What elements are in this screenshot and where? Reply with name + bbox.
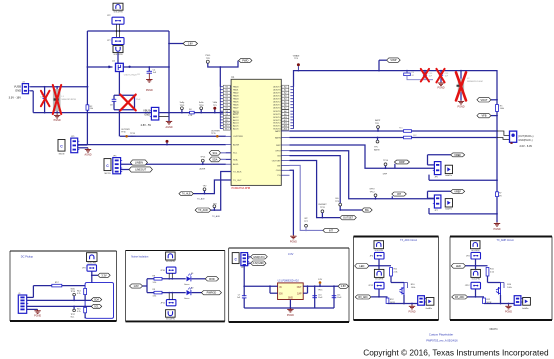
svg-text:1.8V: 1.8V [318, 279, 323, 281]
svg-text:3.3k: 3.3k [153, 282, 157, 284]
svg-text:3.3V - 16V: 3.3V - 16V [9, 96, 22, 100]
svg-text:PGND: PGND [287, 314, 294, 317]
svg-text:A7: A7 [284, 107, 286, 110]
svg-text:DRP: DRP [276, 145, 281, 147]
svg-text:GoldPin: GoldPin [426, 308, 433, 310]
svg-text:PAD2: PAD2 [233, 92, 239, 95]
svg-text:OUTSET: OUTSET [343, 217, 354, 220]
svg-text:AGND: AGND [166, 126, 173, 129]
svg-text:BOUT6: BOUT6 [273, 111, 281, 113]
svg-text:PGND: PGND [146, 89, 153, 92]
svg-text:Noise Isolation: Noise Isolation [131, 254, 149, 258]
svg-text:TP13: TP13 [130, 133, 136, 135]
svg-text:AOUT7: AOUT7 [273, 86, 281, 89]
svg-text:GPIO: GPIO [275, 151, 281, 153]
svg-text:1.8V: 1.8V [188, 42, 193, 45]
svg-text:(OUT(PACK+): (OUT(PACK+) [518, 135, 533, 138]
svg-text:TX_ALE: TX_ALE [197, 198, 205, 201]
svg-text:AOUT5: AOUT5 [273, 92, 281, 95]
svg-text:JP7: JP7 [434, 210, 437, 212]
svg-text:BOUT1: BOUT1 [273, 126, 281, 128]
svg-text:VMAIN: VMAIN [293, 54, 300, 57]
svg-text:D2: D2 [191, 288, 193, 290]
svg-text:BOUT3: BOUT3 [273, 120, 281, 122]
svg-text:PCM1870A RHB: PCM1870A RHB [232, 187, 251, 190]
svg-text:BATP: BATP [375, 119, 381, 122]
svg-text:SRN6028-100M: SRN6028-100M [467, 81, 483, 83]
svg-text:GOLDPIN: GOLDPIN [375, 279, 384, 281]
svg-text:U2 LP38693SD-ADJ: U2 LP38693SD-ADJ [278, 280, 299, 283]
svg-text:VREF: VREF [454, 190, 461, 193]
svg-text:SCL: SCL [212, 152, 217, 155]
svg-text:Green: Green [184, 284, 189, 286]
svg-text:TP10: TP10 [383, 160, 389, 162]
svg-text:1.8V: 1.8V [133, 285, 138, 288]
svg-text:TP1: TP1 [213, 105, 217, 107]
svg-text:2.0V - 6.0V: 2.0V - 6.0V [520, 145, 533, 148]
svg-text:PGND: PGND [34, 315, 41, 318]
svg-text:TX_AMP Circuit: TX_AMP Circuit [497, 239, 514, 242]
svg-text:GOLDPIN: GOLDPIN [375, 250, 384, 252]
svg-text:TP11: TP11 [320, 207, 326, 209]
svg-text:SDA: SDA [212, 158, 217, 161]
svg-text:PAD6: PAD6 [233, 104, 239, 107]
svg-text:OUTSET: OUTSET [272, 160, 281, 162]
svg-text:ALD3: ALD3 [233, 119, 239, 122]
svg-text:BG: BG [277, 156, 280, 158]
svg-text:AOUT2: AOUT2 [273, 101, 281, 104]
svg-text:PG: PG [277, 175, 280, 177]
svg-text:MICIN: MICIN [59, 154, 65, 156]
svg-text:DC Pickup: DC Pickup [21, 254, 34, 258]
svg-text:0.1R: 0.1R [188, 115, 193, 117]
svg-text:GND(PACK-): GND(PACK-) [518, 139, 532, 142]
svg-text:GoldPin: GoldPin [445, 175, 452, 177]
svg-text:TP14: TP14 [200, 157, 206, 159]
svg-text:VINP: VINP [390, 58, 396, 62]
svg-text:PGND: PGND [458, 106, 465, 109]
svg-text:BG: BG [336, 198, 339, 200]
svg-text:2.8V - 5V: 2.8V - 5V [141, 124, 152, 127]
svg-text:R9: R9 [153, 289, 155, 291]
svg-text:GND: GND [288, 297, 293, 299]
svg-text:TP12: TP12 [370, 192, 376, 194]
svg-text:Green: Green [184, 298, 189, 300]
svg-text:FB1: FB1 [399, 128, 403, 130]
svg-text:Copyright © 2016, Texas Instru: Copyright © 2016, Texas Instruments Inco… [363, 347, 549, 357]
svg-text:GND(3.3V): GND(3.3V) [253, 257, 265, 259]
svg-text:GOLDPIN: GOLDPIN [471, 250, 480, 252]
svg-text:PAD0: PAD0 [233, 86, 239, 89]
svg-text:Custom Placeholder: Custom Placeholder [429, 332, 453, 336]
svg-text:TX_AUD: TX_AUD [198, 209, 208, 212]
svg-text:GOLDPIN: GOLDPIN [114, 11, 123, 13]
svg-text:PAD7: PAD7 [233, 107, 239, 110]
svg-text:TX_ALE: TX_ALE [182, 193, 191, 196]
svg-text:PWRGD: PWRGD [207, 292, 217, 295]
svg-text:LED: LED [359, 265, 364, 268]
svg-text:100k: 100k [500, 108, 504, 110]
svg-text:GND: GND [144, 113, 150, 116]
svg-text:ALD6: ALD6 [233, 128, 239, 131]
svg-text:PAD5: PAD5 [233, 101, 239, 104]
svg-text:N7: N7 [225, 108, 227, 110]
svg-text:ALD2: ALD2 [233, 116, 239, 119]
svg-text:SDA: SDA [233, 158, 238, 161]
svg-text:LINEIN: LINEIN [135, 161, 143, 164]
svg-text:BG: BG [365, 209, 369, 212]
svg-text:CHRSET: CHRSET [318, 204, 327, 206]
svg-text:VREF: VREF [454, 154, 461, 157]
svg-text:PWD: PWD [205, 55, 210, 57]
svg-text:AOUT1: AOUT1 [273, 104, 281, 107]
svg-text:AUXR: AUXR [233, 144, 239, 147]
svg-text:VBUS: VBUS [143, 109, 150, 112]
svg-text:VUSB: VUSB [14, 85, 21, 89]
svg-text:3.3V(GND): 3.3V(GND) [253, 263, 265, 265]
svg-text:LED: LED [456, 265, 461, 268]
svg-text:ALD5: ALD5 [233, 125, 239, 128]
svg-text:BOUT5: BOUT5 [273, 114, 281, 116]
svg-text:TP16: TP16 [71, 291, 76, 293]
svg-text:TX_AUD: TX_AUD [212, 215, 221, 218]
svg-text:GoldPin: GoldPin [522, 308, 529, 310]
svg-text:3.3V: 3.3V [101, 274, 106, 277]
svg-text:SCL: SCL [94, 305, 99, 308]
svg-text:GoldPin: GoldPin [445, 209, 452, 211]
svg-text:AGND: AGND [85, 153, 92, 156]
svg-text:TX_ADC Circuit: TX_ADC Circuit [400, 239, 417, 242]
svg-text:3.3k: 3.3k [153, 296, 157, 298]
svg-text:R8: R8 [153, 275, 155, 277]
svg-text:OUTPWR: OUTPWR [211, 130, 220, 132]
svg-text:PGND: PGND [409, 311, 416, 314]
svg-text:TP15: TP15 [318, 290, 323, 292]
svg-text:GPIO: GPIO [369, 189, 375, 191]
svg-text:JP6: JP6 [434, 176, 437, 178]
svg-text:DRP: DRP [383, 173, 388, 175]
svg-text:R1: R1 [137, 74, 139, 76]
svg-text:ALD4: ALD4 [233, 122, 239, 125]
svg-text:PGND: PGND [290, 240, 297, 243]
svg-text:OUT: OUT [297, 287, 302, 289]
svg-text:PGND: PGND [505, 311, 512, 314]
svg-text:EN: EN [279, 293, 283, 295]
svg-text:LINEOUT: LINEOUT [135, 168, 146, 171]
svg-text:DRP: DRP [399, 161, 405, 164]
svg-text:GOLDPIN: GOLDPIN [87, 262, 96, 264]
svg-text:MIC2N: MIC2N [104, 173, 111, 175]
svg-text:AUXR: AUXR [200, 168, 206, 171]
svg-text:AOUT6: AOUT6 [273, 89, 281, 92]
svg-text:IN: IN [279, 287, 282, 289]
svg-text:RX_ADC: RX_ADC [455, 296, 465, 299]
svg-text:GOLDPIN: GOLDPIN [166, 261, 175, 263]
svg-text:NR6028T4R7M: NR6028T4R7M [62, 99, 77, 101]
svg-text:FB2: FB2 [413, 135, 417, 137]
svg-text:TP18: TP18 [199, 105, 204, 107]
svg-text:CHG: CHG [276, 170, 281, 172]
svg-text:TP16: TP16 [121, 131, 126, 133]
svg-text:PGND: PGND [54, 119, 61, 122]
svg-text:CAP: CAP [297, 292, 302, 295]
svg-text:BATP: BATP [275, 130, 281, 133]
svg-text:AUXL: AUXL [233, 163, 239, 166]
svg-text:CSD75-7NQ3: CSD75-7NQ3 [124, 74, 138, 76]
svg-text:GOLDPIN: GOLDPIN [471, 279, 480, 281]
svg-text:SDA: SDA [94, 299, 99, 302]
svg-text:4.7k: 4.7k [77, 311, 81, 313]
svg-text:RXD: RXD [209, 278, 214, 281]
svg-text:VOUT: VOUT [480, 99, 487, 102]
svg-text:AOUT3: AOUT3 [273, 98, 281, 101]
svg-text:PGND: PGND [438, 86, 445, 89]
svg-text:AOUT0: AOUT0 [273, 107, 281, 110]
svg-text:VBUS: VBUS [233, 113, 239, 115]
svg-text:3.3V: 3.3V [288, 252, 294, 256]
svg-text:BATN: BATN [374, 148, 380, 151]
svg-text:VFB: VFB [481, 115, 486, 118]
svg-text:BATN: BATN [275, 136, 281, 139]
svg-text:1.8V: 1.8V [341, 285, 346, 288]
svg-text:BOUT2: BOUT2 [273, 123, 281, 125]
svg-text:PAD3: PAD3 [233, 95, 239, 98]
svg-text:INT: INT [397, 193, 402, 196]
svg-text:BOUT4: BOUT4 [273, 117, 281, 119]
svg-text:INT: INT [329, 229, 334, 232]
svg-text:D1: D1 [191, 273, 193, 275]
svg-text:4.7k: 4.7k [77, 293, 81, 295]
svg-text:OUTPWR: OUTPWR [233, 136, 243, 138]
svg-text:PAD4: PAD4 [233, 98, 239, 101]
svg-text:TP15: TP15 [211, 133, 216, 135]
svg-text:TP19: TP19 [180, 105, 185, 107]
svg-text:PWD: PWD [242, 58, 248, 62]
svg-text:GND: GND [15, 89, 21, 93]
svg-text:660374: 660374 [490, 328, 499, 331]
svg-text:TX_OUT: TX_OUT [233, 180, 242, 182]
svg-text:GOLDPIN: GOLDPIN [166, 318, 175, 320]
svg-text:PMP9753_rev_A 05/24/16: PMP9753_rev_A 05/24/16 [426, 338, 458, 342]
svg-text:R7: R7 [499, 193, 501, 195]
svg-text:TX_BCK: TX_BCK [233, 171, 242, 173]
svg-text:PGND: PGND [494, 228, 501, 231]
svg-text:PAD1: PAD1 [233, 89, 239, 92]
svg-text:RX_ADC: RX_ADC [358, 296, 368, 299]
svg-text:AOUT4: AOUT4 [273, 95, 281, 98]
